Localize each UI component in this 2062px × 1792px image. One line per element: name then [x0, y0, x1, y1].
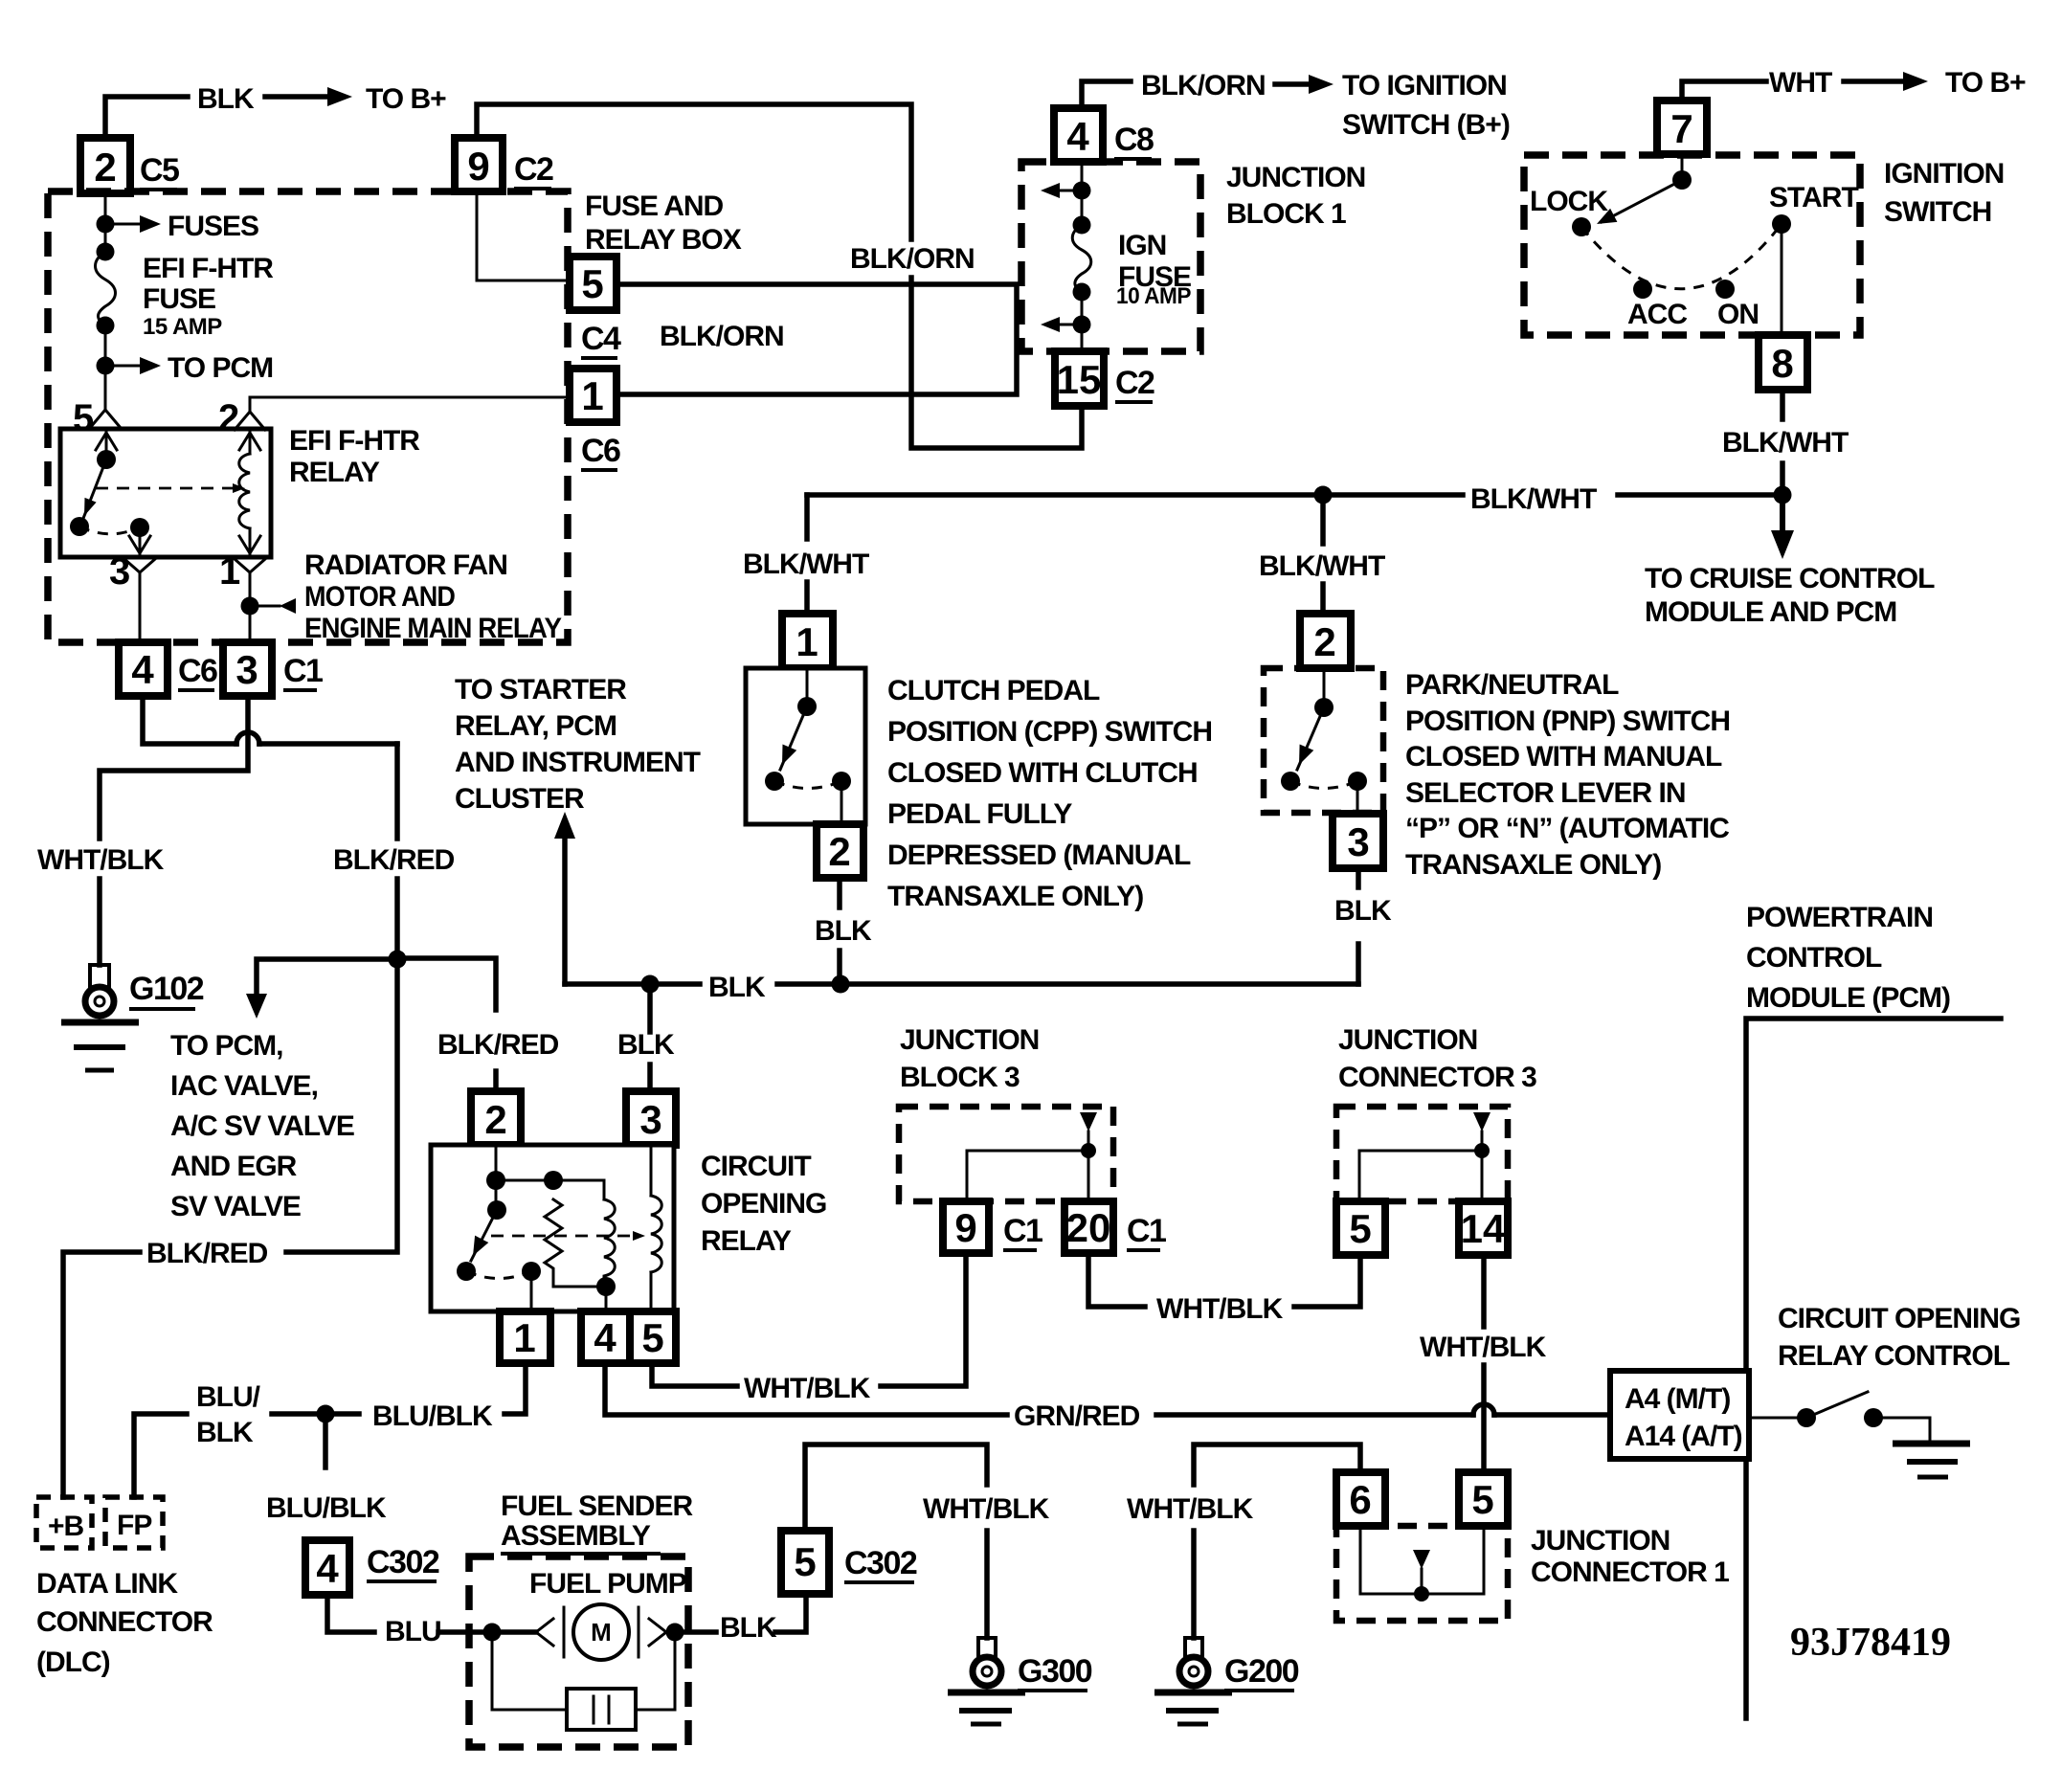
svg-text:BLK/RED: BLK/RED: [333, 844, 455, 876]
svg-text:POSITION (PNP) SWITCH: POSITION (PNP) SWITCH: [1405, 706, 1730, 737]
svg-text:CLOSED WITH CLUTCH: CLOSED WITH CLUTCH: [887, 757, 1198, 789]
junction block 3 dashed box: [899, 1107, 1113, 1201]
svg-text:BLU: BLU: [385, 1616, 441, 1647]
ground ring terminal G102: [90, 965, 109, 988]
svg-text:TO PCM,: TO PCM,: [170, 1030, 282, 1062]
relay internal node C: [596, 1277, 616, 1296]
arrow to starter relay pcm instrument cluster: [562, 833, 568, 984]
relay lead to pin 1: [530, 1271, 533, 1311]
svg-text:BLK/RED: BLK/RED: [146, 1238, 268, 1269]
junction connector 3 node: [1474, 1143, 1490, 1158]
svg-text:BLK: BLK: [196, 1417, 254, 1448]
svg-text:5: 5: [794, 1539, 816, 1584]
relay switch common: [495, 1180, 498, 1210]
svg-text:BLK: BLK: [617, 1029, 675, 1061]
relay internal node B: [544, 1171, 563, 1190]
wire BLK/ORN C4 pin5 to C6 pin1: [616, 284, 1017, 394]
svg-text:9: 9: [954, 1205, 976, 1250]
connector ignition pin 8: [1759, 335, 1807, 390]
connector JC1 pin 6: [1336, 1472, 1385, 1526]
wire BLU/BLK to C302 pin 4: [323, 1414, 328, 1467]
svg-text:C1: C1: [283, 653, 323, 689]
svg-text:6: 6: [1349, 1477, 1371, 1522]
PCM switch contact right: [1864, 1408, 1883, 1427]
junction connector 3 internal wires: [1359, 1151, 1482, 1201]
svg-text:WHT/BLK: WHT/BLK: [923, 1493, 1050, 1525]
svg-text:ON: ON: [1717, 299, 1759, 330]
svg-text:FUSE: FUSE: [143, 283, 215, 315]
node fuses tap: [97, 215, 115, 234]
junction connector 3 feed arrow: [1473, 1112, 1490, 1131]
arrow WHT to B+: [1844, 78, 1907, 84]
connector relay pin 2: [471, 1091, 521, 1145]
svg-text:BLK/ORN: BLK/ORN: [850, 243, 975, 275]
relay coil lead from pin 3: [650, 1145, 653, 1196]
wire GRN/RED with hop to PCM A4: [1156, 1412, 1473, 1418]
wire BLK/WHT trunk: [807, 492, 1463, 498]
PNP contact left: [1281, 772, 1300, 791]
svg-text:MODULE (PCM): MODULE (PCM): [1746, 982, 1950, 1014]
wire WHT/BLK up to JC3 pin 5: [1294, 1255, 1360, 1307]
svg-text:1: 1: [581, 373, 603, 418]
svg-text:CONNECTOR 3: CONNECTOR 3: [1338, 1062, 1536, 1093]
arrow tap left 2: [1053, 324, 1082, 326]
svg-text:TO CRUISE CONTROL: TO CRUISE CONTROL: [1645, 563, 1935, 594]
arrow tap left 1: [1053, 190, 1082, 192]
svg-text:BLK/WHT: BLK/WHT: [1470, 483, 1597, 515]
wire relay pin5 to junction block 3 pin 9: [652, 1363, 737, 1386]
wire START to pin 8: [1781, 224, 1783, 337]
node radiator fan tap: [241, 597, 259, 616]
fuel pump capacitor branch left: [492, 1632, 567, 1710]
node BLK/RED junction: [389, 951, 407, 969]
svg-text:CONNECTOR 1: CONNECTOR 1: [1531, 1557, 1729, 1588]
junction block 3 feed arrow: [1080, 1112, 1097, 1131]
wire pin9 internal to C4 pin 5: [477, 191, 570, 280]
wire to G102: [97, 879, 102, 965]
svg-text:FUEL SENDER: FUEL SENDER: [501, 1490, 693, 1522]
svg-text:TO STARTER: TO STARTER: [455, 674, 627, 706]
wire BLK/ORN to C2 pin 15: [911, 278, 1082, 448]
relay actuation dashed link: [96, 487, 234, 490]
node fuel pump left: [483, 1624, 502, 1642]
connector C1 pin 9: [943, 1201, 989, 1253]
svg-text:C5: C5: [140, 152, 179, 189]
svg-text:1: 1: [513, 1315, 535, 1360]
svg-text:20: 20: [1066, 1205, 1111, 1250]
svg-text:MODULE AND PCM: MODULE AND PCM: [1645, 596, 1896, 628]
relay internal wire to resistor 2: [553, 1180, 604, 1199]
wire to BLK trunk: [837, 951, 842, 984]
svg-text:C302: C302: [367, 1544, 439, 1580]
wire: [1081, 190, 1084, 225]
CPP contact right: [832, 772, 851, 791]
wire ignition pin 7 to WHT B+: [1682, 81, 1766, 102]
svg-text:SWITCH (B+): SWITCH (B+): [1342, 109, 1510, 141]
wire BLK/RED to junction: [394, 879, 400, 959]
arrow to PCM: [105, 365, 146, 368]
junction connector 1 internal wires: [1360, 1526, 1422, 1594]
relay switch contact right: [522, 1262, 541, 1281]
wire to G300 ring: [984, 1531, 990, 1638]
svg-text:C8: C8: [1114, 122, 1154, 158]
node tap 2: [1073, 316, 1091, 334]
wire BLU into fuel sender: [438, 1629, 536, 1635]
svg-text:FUEL PUMP: FUEL PUMP: [529, 1568, 686, 1600]
fuel pump capacitor: [567, 1689, 636, 1730]
svg-text:JUNCTION: JUNCTION: [1226, 162, 1365, 193]
node fuse bottom: [97, 317, 115, 335]
svg-text:RELAY, PCM: RELAY, PCM: [455, 710, 616, 742]
svg-text:WHT: WHT: [1769, 67, 1832, 99]
CPP lead to pin 2: [840, 781, 843, 824]
connector C1 pin 3: [223, 642, 272, 696]
svg-text:A/C SV VALVE: A/C SV VALVE: [170, 1110, 354, 1142]
svg-text:CIRCUIT OPENING: CIRCUIT OPENING: [1778, 1303, 2020, 1334]
powertrain control module boundary: [1746, 1019, 2001, 1718]
svg-text:4: 4: [1066, 114, 1089, 159]
junction connector 1 node: [1414, 1586, 1429, 1602]
svg-text:1: 1: [219, 550, 240, 593]
svg-text:CONTROL: CONTROL: [1746, 942, 1882, 974]
svg-text:(DLC): (DLC): [36, 1646, 110, 1678]
svg-text:RELAY: RELAY: [289, 457, 380, 488]
fuel pump capacitor branch right: [636, 1632, 675, 1710]
wire C302 pin5 to G300: [805, 1445, 987, 1531]
svg-text:9: 9: [467, 144, 489, 189]
EFI F-HTR relay box: [60, 429, 271, 557]
svg-text:CONNECTOR: CONNECTOR: [36, 1606, 213, 1638]
wire fuse to PCM tap: [104, 325, 107, 366]
data link connector +B terminal: [36, 1497, 92, 1548]
arrow to fuses: [105, 223, 146, 226]
connector PNP pin 3: [1333, 814, 1383, 868]
wire C1 pin3 down left to ground G102: [100, 696, 248, 839]
wire C1 pin 20 to junction connector 3 pin 5: [1088, 1253, 1145, 1307]
svg-text:TO B+: TO B+: [366, 83, 446, 115]
relay lead to pin 4: [605, 1287, 608, 1311]
svg-text:JUNCTION: JUNCTION: [1338, 1024, 1477, 1056]
svg-text:BLK/WHT: BLK/WHT: [743, 549, 869, 580]
relay resistor 1: [545, 1199, 562, 1273]
svg-text:4: 4: [316, 1546, 339, 1591]
relay coil: [651, 1196, 661, 1272]
wire to BLK/WHT trunk: [1780, 463, 1785, 495]
wire to C2 pin 15: [1081, 325, 1084, 351]
connector JC3 pin 14: [1459, 1201, 1508, 1255]
wire BLU/BLK: [272, 1411, 359, 1417]
svg-text:BLK: BLK: [720, 1612, 777, 1644]
svg-text:C4: C4: [581, 321, 621, 357]
wire into IGN fuse: [1081, 162, 1084, 190]
node tap 1: [1073, 182, 1091, 200]
junction block 3 internal wires: [967, 1151, 1088, 1201]
wire to PNP pin 2: [1320, 584, 1326, 616]
svg-text:WHT/BLK: WHT/BLK: [1127, 1493, 1254, 1525]
svg-text:MOTOR AND: MOTOR AND: [304, 581, 455, 613]
wire BLK trunk: [565, 981, 700, 987]
wire BLK out of fuel sender: [675, 1629, 716, 1635]
ground ring terminal G200: [1185, 1638, 1202, 1657]
svg-text:5: 5: [1471, 1477, 1493, 1522]
svg-text:IGN: IGN: [1118, 230, 1166, 261]
PNP contact top: [1314, 698, 1334, 717]
svg-text:C6: C6: [178, 653, 217, 689]
svg-text:JUNCTION: JUNCTION: [900, 1024, 1039, 1056]
svg-text:“P” OR “N” (AUTOMATIC: “P” OR “N” (AUTOMATIC: [1405, 813, 1729, 844]
junction connector 1 dashed box: [1336, 1526, 1508, 1621]
node BLK trunk left branch: [641, 975, 660, 994]
connector C2 pin 9: [455, 138, 503, 191]
relay coil pin 1 lead: [249, 528, 252, 553]
PNP dashed throw: [1290, 781, 1357, 789]
svg-text:3: 3: [109, 550, 130, 593]
svg-text:2: 2: [484, 1097, 506, 1142]
svg-text:4: 4: [594, 1315, 616, 1360]
node BLU/BLK junction: [317, 1405, 335, 1423]
connector JC1 pin 5: [1459, 1472, 1508, 1526]
wire to relay pin 3 box: [647, 1064, 653, 1093]
fuel pump motor: [536, 1619, 553, 1646]
svg-text:IAC VALVE,: IAC VALVE,: [170, 1070, 318, 1102]
node BLK trunk CPP branch: [832, 975, 850, 994]
wire BLK to circuit opening relay pin 3: [647, 984, 653, 1032]
ground PCM: [1893, 1441, 1970, 1447]
relay switch common contact: [97, 450, 116, 469]
PNP lead to pin 3: [1356, 781, 1359, 816]
svg-text:3: 3: [235, 647, 258, 692]
wire FP to BLU/BLK: [134, 1414, 187, 1497]
svg-text:JUNCTION: JUNCTION: [1531, 1525, 1670, 1557]
svg-text:15: 15: [1057, 357, 1102, 402]
wire junction block 1 pin 4 to ignition switch feed: [1082, 81, 1131, 106]
svg-text:8: 8: [1771, 341, 1793, 386]
CPP dashed throw: [774, 781, 841, 789]
svg-text:TO B+: TO B+: [1945, 67, 2026, 99]
svg-text:BLU/: BLU/: [196, 1381, 261, 1413]
relay coil: [239, 454, 250, 528]
arrow to cruise control: [1780, 495, 1785, 534]
svg-text:START: START: [1769, 182, 1858, 213]
svg-text:ENGINE MAIN RELAY: ENGINE MAIN RELAY: [304, 613, 562, 644]
arrow to B+: [265, 94, 331, 100]
connector JC3 pin 5: [1336, 1201, 1385, 1255]
relay internal node A: [486, 1171, 505, 1190]
connector C6 pin 4: [119, 642, 168, 696]
svg-text:14: 14: [1461, 1206, 1506, 1251]
wire to BLK trunk right end: [1356, 944, 1361, 984]
fuse EFI F-HTR 15A element: [96, 252, 116, 325]
svg-text:ACC: ACC: [1627, 299, 1687, 330]
svg-text:POSITION (CPP) SWITCH: POSITION (CPP) SWITCH: [887, 716, 1212, 748]
svg-text:LOCK: LOCK: [1530, 186, 1608, 217]
PNP switch arm: [1297, 707, 1324, 770]
wire BLK to C302 pin 5: [775, 1596, 806, 1632]
CPP switch arm: [780, 706, 807, 770]
svg-text:BLK: BLK: [1334, 895, 1392, 927]
svg-text:2: 2: [828, 829, 850, 874]
connector PNP pin 2: [1300, 614, 1351, 668]
svg-text:G300: G300: [1018, 1653, 1092, 1690]
svg-text:TRANSAXLE ONLY): TRANSAXLE ONLY): [1405, 849, 1661, 881]
relay pin 5 lead: [96, 433, 117, 450]
contact ACC: [1633, 280, 1652, 299]
ignition switch arm to LOCK: [1602, 180, 1682, 222]
svg-text:SWITCH: SWITCH: [1884, 196, 1991, 228]
svg-text:10 AMP: 10 AMP: [1116, 283, 1191, 309]
CPP internal lead: [806, 668, 809, 706]
wire BLK/RED down to DLC: [286, 959, 397, 1252]
PNP contact right: [1348, 772, 1367, 791]
wire pin7 to rotor: [1681, 154, 1684, 180]
svg-text:WHT/BLK: WHT/BLK: [1420, 1332, 1547, 1363]
svg-text:3: 3: [1347, 819, 1369, 864]
connector C302 pin 5: [781, 1531, 829, 1594]
node IGN fuse bottom: [1073, 283, 1091, 302]
svg-text:C302: C302: [844, 1545, 917, 1581]
svg-text:RELAY BOX: RELAY BOX: [585, 224, 742, 256]
svg-text:CLOSED WITH MANUAL: CLOSED WITH MANUAL: [1405, 741, 1722, 773]
svg-text:C2: C2: [514, 151, 553, 188]
PCM relay control switch wire: [1749, 1417, 1798, 1420]
PNP internal lead: [1323, 668, 1326, 707]
connector fork pin 3: [124, 559, 155, 572]
relay coil lead to pin 5: [650, 1272, 653, 1311]
relay switch dashed throw: [79, 526, 140, 534]
svg-text:PARK/NEUTRAL: PARK/NEUTRAL: [1405, 669, 1619, 701]
svg-text:SELECTOR LEVER IN: SELECTOR LEVER IN: [1405, 777, 1686, 809]
connector relay pin 1: [500, 1311, 550, 1363]
node fuel pump right: [666, 1624, 684, 1642]
connector C302 pin 4: [305, 1540, 349, 1595]
junction block 1 dashed outline: [1021, 162, 1200, 351]
svg-text:5: 5: [1349, 1206, 1371, 1251]
connector C1 pin 20: [1065, 1201, 1113, 1253]
svg-text:BLK: BLK: [197, 83, 255, 115]
svg-text:CIRCUIT: CIRCUIT: [701, 1151, 811, 1182]
svg-text:BLU/BLK: BLU/BLK: [266, 1492, 387, 1524]
wire to relay pin 2 box: [493, 1071, 499, 1093]
connector fork pin 2: [249, 397, 252, 412]
wire WHT/BLK up to pin 9: [881, 1255, 966, 1386]
svg-text:15 AMP: 15 AMP: [143, 314, 222, 340]
svg-text:SV VALVE: SV VALVE: [170, 1191, 301, 1222]
wire to G200 ring: [1191, 1531, 1197, 1638]
wire trunk to PNP switch: [1320, 495, 1326, 544]
PCM switch to ground: [1873, 1418, 1930, 1442]
svg-text:3: 3: [639, 1097, 661, 1142]
wire relay pin 4 to GRN/RED: [605, 1363, 1007, 1415]
junction block 3 node: [1081, 1143, 1096, 1158]
svg-text:AND INSTRUMENT: AND INSTRUMENT: [455, 747, 701, 778]
svg-text:BLOCK 1: BLOCK 1: [1226, 198, 1346, 230]
relay resistor 2: [604, 1199, 615, 1287]
wire to relay pin 5: [104, 366, 107, 410]
svg-text:TO PCM: TO PCM: [168, 352, 273, 384]
svg-text:WHT/BLK: WHT/BLK: [37, 844, 165, 876]
CPP contact top: [797, 697, 817, 716]
connector C2 pin 15: [1055, 351, 1104, 406]
svg-text:GRN/RED: GRN/RED: [1014, 1400, 1140, 1432]
wire relay pin1 to BLU/BLK: [504, 1363, 526, 1414]
wire CPP pin 2 down: [837, 878, 842, 907]
svg-text:FUSE AND: FUSE AND: [585, 190, 724, 222]
connector relay pin 4: [581, 1311, 630, 1363]
fuel sender assembly dashed box: [469, 1557, 688, 1747]
svg-text:4: 4: [131, 647, 154, 692]
connector C8 pin 4: [1054, 108, 1103, 162]
connector C5 pin 2: [80, 138, 130, 193]
connector fork pin 5: [90, 410, 121, 428]
svg-text:BLK/RED: BLK/RED: [437, 1029, 559, 1061]
svg-text:G200: G200: [1224, 1653, 1299, 1690]
connector relay pin 3: [626, 1091, 676, 1145]
connector PCM terminal A4/A14: [1610, 1371, 1749, 1459]
connector fork pin 1: [235, 559, 265, 572]
wire from C5 pin 2 into fuse box: [104, 193, 107, 224]
svg-text:7: 7: [1670, 106, 1692, 151]
circuit opening relay box: [431, 1145, 674, 1311]
svg-text:2: 2: [218, 397, 239, 439]
svg-text:+B: +B: [48, 1511, 84, 1542]
node IGN fuse top: [1073, 216, 1091, 235]
wire PNP pin 3 down: [1356, 868, 1361, 887]
svg-text:BLK: BLK: [815, 915, 872, 947]
wire relay pin2 to connector C6 pin 1: [250, 396, 570, 399]
wire branch to circuit opening relay pin 2: [397, 958, 496, 1010]
svg-text:AND EGR: AND EGR: [170, 1151, 298, 1182]
svg-text:5: 5: [581, 261, 603, 306]
svg-text:BLK: BLK: [708, 972, 766, 1003]
relay switch contact left: [457, 1262, 476, 1281]
svg-text:RELAY: RELAY: [701, 1225, 792, 1257]
relay actuation dashed link: [491, 1235, 634, 1238]
svg-text:PEDAL FULLY: PEDAL FULLY: [887, 798, 1072, 830]
relay coil pin 2 lead: [239, 433, 260, 450]
svg-text:1: 1: [796, 619, 818, 664]
svg-text:C2: C2: [1115, 365, 1154, 401]
relay switch arm: [82, 459, 106, 521]
svg-text:FP: FP: [117, 1510, 151, 1541]
connector CPP pin 2: [817, 824, 863, 878]
fuse IGN 10A element: [1072, 225, 1091, 292]
PCM switch contact left: [1797, 1408, 1816, 1427]
relay pin2 internal lead: [495, 1145, 498, 1180]
PCM switch arm: [1806, 1392, 1868, 1418]
svg-text:BLK/ORN: BLK/ORN: [660, 321, 784, 352]
wire junction connector 1 pin 6 to G200: [1194, 1445, 1360, 1485]
ignition switch dashed outline: [1524, 155, 1860, 335]
wire: [1081, 292, 1084, 325]
relay switch contact right: [130, 518, 149, 537]
wire C2 pin 9 to BLK/ORN drop: [477, 104, 911, 239]
svg-text:DATA LINK: DATA LINK: [36, 1568, 178, 1600]
svg-text:IGNITION: IGNITION: [1884, 158, 2004, 190]
fuse and relay box dashed outline: [48, 191, 568, 642]
clutch pedal position switch box: [746, 668, 865, 824]
svg-text:WHT/BLK: WHT/BLK: [1156, 1293, 1284, 1325]
svg-text:M: M: [591, 1618, 612, 1646]
ignition dashed travel arc: [1581, 224, 1782, 289]
wire BLK from connector C5 pin 2 up to B+: [105, 97, 188, 140]
node PCM tap: [97, 357, 115, 375]
svg-text:BLK/ORN: BLK/ORN: [1141, 70, 1266, 101]
contact START: [1772, 214, 1791, 234]
ignition rotor contact: [1672, 170, 1692, 190]
svg-text:A14 (A/T): A14 (A/T): [1625, 1421, 1742, 1452]
node fuse top: [97, 243, 115, 261]
svg-text:A4 (M/T): A4 (M/T): [1625, 1383, 1730, 1415]
